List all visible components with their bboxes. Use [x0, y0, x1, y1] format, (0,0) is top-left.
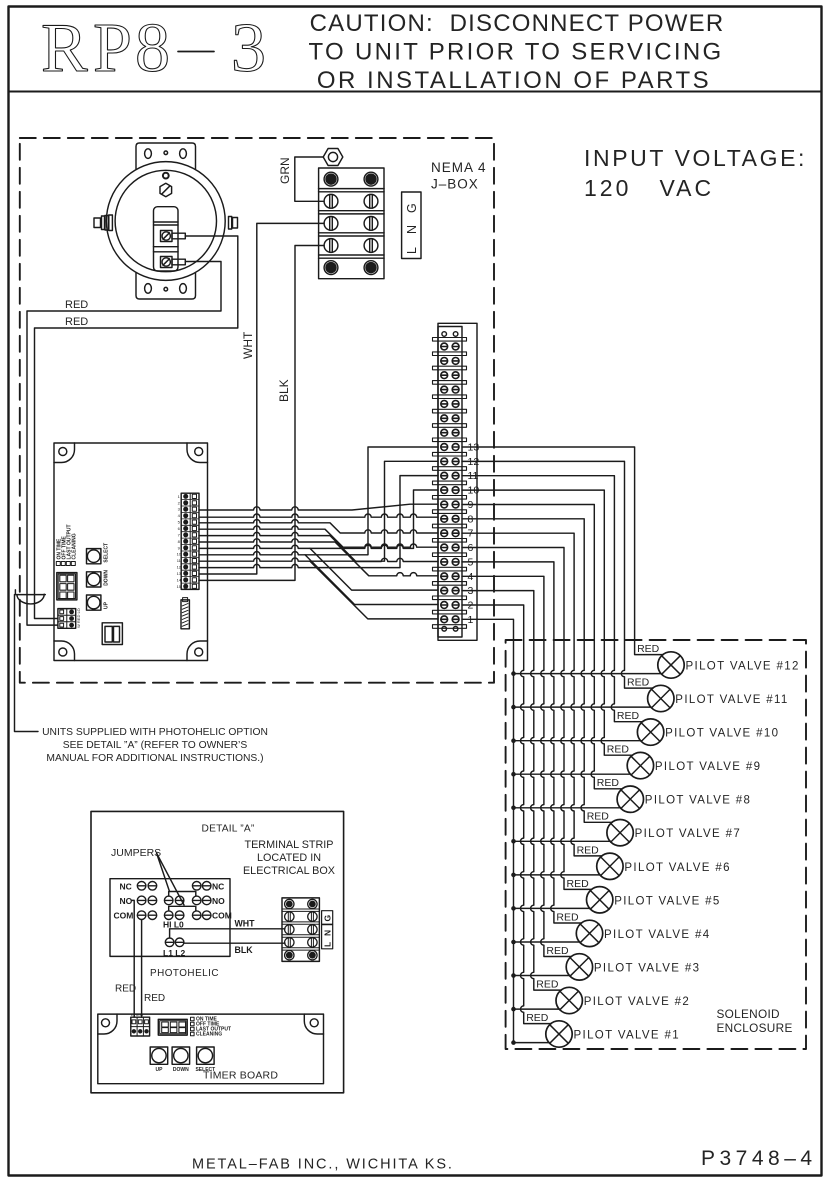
- pilot valve #6 (solenoid): [597, 853, 731, 879]
- wire board pin3 to TB1-7: [199, 520, 438, 533]
- wire COM to timer (RED): [141, 920, 143, 1017]
- svg-text:NC: NC: [120, 881, 132, 891]
- input voltage label: [584, 145, 807, 201]
- pin numbers 13..1: [468, 442, 480, 626]
- junction: [511, 705, 516, 710]
- pilot valve #7 (solenoid): [607, 820, 741, 846]
- svg-text:RED: RED: [587, 811, 610, 823]
- timer board U1: [54, 443, 208, 661]
- svg-text:RED: RED: [637, 643, 660, 655]
- jumper NO row: [169, 892, 196, 897]
- wire TB1-9 to pilot valve #8: [462, 505, 623, 789]
- svg-text:N: N: [405, 225, 419, 234]
- pilot valve #11 (solenoid): [648, 685, 789, 711]
- svg-text:INPUT VOLTAGE:: INPUT VOLTAGE:: [584, 145, 807, 171]
- svg-text:G: G: [323, 915, 333, 922]
- svg-text:TERMINAL STRIP: TERMINAL STRIP: [245, 839, 334, 851]
- label L N G box: [402, 192, 421, 259]
- svg-text:RED: RED: [556, 911, 579, 923]
- detail A box: [91, 811, 344, 1092]
- svg-text:RED: RED: [526, 1012, 549, 1024]
- pilot valve #2 (solenoid): [556, 987, 690, 1013]
- junction: [511, 873, 516, 878]
- wire common bus to pilot valve #11: [514, 706, 652, 708]
- svg-text:PILOT VALVE #10: PILOT VALVE #10: [665, 728, 779, 740]
- jumper leader lines: [157, 853, 185, 905]
- wire TB1-13 to pilot valve #12: [462, 447, 663, 655]
- svg-text:WHT: WHT: [235, 919, 256, 929]
- leader to RED wires: [15, 590, 46, 732]
- svg-text:SELECT: SELECT: [104, 543, 110, 563]
- svg-text:PILOT VALVE #12: PILOT VALVE #12: [686, 661, 800, 673]
- wire WHT: J1 row3 to timer board pin 13: [199, 223, 324, 574]
- svg-text:PILOT VALVE #4: PILOT VALVE #4: [604, 929, 710, 941]
- svg-text:BLK: BLK: [277, 379, 291, 402]
- svg-text:RED: RED: [577, 844, 600, 856]
- label SOLENOID ENCLOSURE: [717, 1007, 793, 1035]
- wire TB1-3 to pilot valve #2: [462, 591, 561, 991]
- svg-text:CLEANING: CLEANING: [196, 1032, 222, 1038]
- junction box J1 (detail A): [282, 898, 319, 962]
- svg-text:BLK: BLK: [235, 945, 254, 955]
- svg-text:PILOT VALVE #8: PILOT VALVE #8: [645, 795, 751, 807]
- terminal strip TB1: [433, 323, 478, 640]
- wire board pin5 to TB1-5: [199, 532, 438, 561]
- wire to TB1-2: [305, 555, 438, 605]
- wire common bus to pilot valve #6: [514, 874, 601, 876]
- svg-text:RED: RED: [627, 677, 650, 689]
- caution note: [309, 10, 725, 94]
- junction: [511, 906, 516, 911]
- wire common bus to pilot valve #2: [514, 1008, 560, 1010]
- wire to TB1-3: [310, 548, 438, 590]
- wire TB1-6 to pilot valve #5: [462, 548, 592, 890]
- svg-text:RED: RED: [607, 744, 630, 756]
- pilot valve #12 (solenoid): [658, 652, 800, 678]
- junction: [511, 738, 516, 743]
- pilot valve #3 (solenoid): [566, 954, 700, 980]
- svg-text:PHOTOHELIC: PHOTOHELIC: [150, 968, 219, 979]
- svg-text:RED: RED: [536, 979, 559, 991]
- wire BLK: J1 row4 to timer board pin 14: [199, 246, 324, 581]
- svg-text:W RED LO: W RED LO: [76, 608, 81, 628]
- pilot valve #1 (solenoid): [546, 1021, 680, 1047]
- svg-text:GRN: GRN: [278, 157, 292, 184]
- label L N G boxes (detail A): [322, 911, 333, 949]
- wire common bus to pilot valve #7: [514, 840, 611, 842]
- svg-text:SEE DETAIL ”A” (REFER TO OWNER: SEE DETAIL ”A” (REFER TO OWNER’S: [63, 740, 248, 751]
- wire BLK: L2 to J-box: [185, 942, 286, 944]
- svg-text:PILOT VALVE #5: PILOT VALVE #5: [614, 895, 720, 907]
- wire TB1-8 to pilot valve #7: [462, 519, 612, 823]
- junction: [511, 973, 516, 978]
- pilot valve #8 (solenoid): [617, 786, 751, 812]
- svg-text:COM: COM: [212, 911, 232, 921]
- wire GRN: ground lug to J1 row2: [295, 157, 324, 201]
- wire common bus to pilot valve #9: [514, 773, 631, 775]
- svg-text:DOWN: DOWN: [104, 570, 110, 586]
- svg-text:10: 10: [177, 552, 182, 557]
- svg-text:PILOT VALVE #9: PILOT VALVE #9: [655, 761, 761, 773]
- control enclosure (dashed): [20, 138, 494, 683]
- svg-text:RED: RED: [144, 993, 165, 1004]
- svg-text:RED: RED: [617, 710, 640, 722]
- svg-text:RED: RED: [567, 878, 590, 890]
- svg-text:PILOT VALVE #2: PILOT VALVE #2: [584, 996, 690, 1008]
- svg-text:RED: RED: [115, 984, 136, 995]
- wire common bus to pilot valve #1: [514, 1042, 550, 1044]
- junction: [511, 772, 516, 777]
- svg-text:PILOT VALVE #11: PILOT VALVE #11: [675, 694, 788, 706]
- svg-text:ELECTRICAL BOX: ELECTRICAL BOX: [243, 865, 335, 877]
- svg-text:14: 14: [177, 577, 182, 582]
- pilot valve #5 (solenoid): [587, 887, 721, 913]
- svg-text:N: N: [323, 930, 333, 936]
- svg-text:LOCATED IN: LOCATED IN: [257, 852, 321, 864]
- wire TB1-12 to pilot valve #11: [462, 461, 653, 688]
- svg-text:CLEANING: CLEANING: [72, 533, 78, 559]
- svg-text:RED: RED: [65, 316, 88, 328]
- photohelic option note: [42, 727, 268, 764]
- svg-text:DETAIL ”A”: DETAIL ”A”: [202, 824, 255, 835]
- svg-text:L: L: [323, 942, 333, 947]
- junction box J1 (NEMA 4): [319, 168, 384, 279]
- svg-text:WHT: WHT: [241, 331, 255, 359]
- wire TB1-10 to pilot valve #9: [462, 490, 633, 755]
- wire common bus to pilot valve #4: [514, 941, 580, 943]
- pilot valve #4 (solenoid): [576, 920, 710, 946]
- junction: [511, 839, 516, 844]
- timer board (detail A): [98, 1012, 324, 1084]
- svg-text:NC: NC: [212, 881, 224, 891]
- svg-text:COM: COM: [114, 911, 134, 921]
- wire common bus to pilot valve #8: [514, 807, 621, 809]
- svg-text:CAUTION: DISCONNECT POWER: CAUTION: DISCONNECT POWER: [310, 10, 725, 37]
- svg-text:PILOT VALVE #1: PILOT VALVE #1: [574, 1030, 680, 1042]
- svg-text:ENCLOSURE: ENCLOSURE: [717, 1021, 793, 1035]
- wire common bus to pilot valve #12: [514, 673, 662, 675]
- wire board pin10 to TB1-11 (riser): [199, 476, 438, 568]
- wire board pin2 to TB1-8: [199, 514, 438, 517]
- svg-text:TIMER BOARD: TIMER BOARD: [203, 1070, 278, 1082]
- svg-text:NO: NO: [120, 896, 133, 906]
- ground lug (hex nut): [323, 149, 343, 166]
- svg-text:JUMPERS: JUMPERS: [111, 847, 161, 859]
- svg-text:G: G: [405, 203, 419, 213]
- wire common bus from TB1-1: [462, 619, 514, 1042]
- wire TB1-4 to pilot valve #3: [462, 576, 572, 956]
- svg-text:NO: NO: [212, 896, 225, 906]
- junction: [511, 671, 516, 676]
- wire board pin1 to TB1-9: [199, 504, 438, 510]
- svg-text:TO UNIT PRIOR TO SERVICING: TO UNIT PRIOR TO SERVICING: [309, 39, 724, 66]
- photohelic pressure switch terminals: [110, 879, 232, 958]
- svg-text:15: 15: [177, 584, 182, 589]
- svg-text:SOLENOID: SOLENOID: [717, 1007, 780, 1021]
- svg-text:RED: RED: [546, 945, 569, 957]
- label TERMINAL STRIP LOCATED IN ELECTRICAL BOX: [243, 839, 335, 877]
- wire TB1-11 to pilot valve #10: [462, 476, 643, 722]
- svg-text:J–BOX: J–BOX: [431, 177, 479, 192]
- wire board pin7 to TB1-10 (riser): [199, 490, 438, 548]
- jumper COM row: [169, 906, 196, 911]
- wire common bus to pilot valve #10: [514, 740, 641, 742]
- svg-text:MANUAL FOR ADDITIONAL INSTRUCT: MANUAL FOR ADDITIONAL INSTRUCTIONS.): [46, 753, 263, 764]
- svg-text:PILOT VALVE #7: PILOT VALVE #7: [635, 828, 741, 840]
- svg-text:PILOT VALVE #3: PILOT VALVE #3: [594, 962, 700, 974]
- junction: [511, 1040, 516, 1045]
- svg-text:METAL–FAB INC., WICHITA KS.: METAL–FAB INC., WICHITA KS.: [192, 1157, 454, 1173]
- svg-text:RP83: RP83: [41, 10, 266, 87]
- svg-text:RED: RED: [65, 299, 88, 311]
- pilot valve #9 (solenoid): [627, 752, 761, 778]
- pressure switch PS1: [94, 143, 238, 299]
- svg-text:RED: RED: [597, 777, 620, 789]
- svg-text:UP: UP: [155, 1067, 163, 1073]
- svg-text:OR INSTALLATION OF PARTS: OR INSTALLATION OF PARTS: [317, 67, 711, 94]
- wire WHT: L1 to J-box: [170, 929, 285, 938]
- svg-text:L1 L2: L1 L2: [163, 948, 185, 958]
- wire common bus to pilot valve #3: [514, 975, 570, 977]
- svg-text:L: L: [405, 247, 419, 254]
- wire NO to timer (RED): [132, 900, 135, 1017]
- wire PS1 lower terminal to timer board (RED): [27, 262, 221, 626]
- svg-text:PILOT VALVE #6: PILOT VALVE #6: [624, 862, 730, 874]
- svg-text:13: 13: [177, 571, 182, 576]
- wire board pin8 to TB1-13 (riser): [199, 447, 438, 555]
- junction: [511, 940, 516, 945]
- svg-text:12: 12: [177, 565, 182, 570]
- svg-text:DOWN: DOWN: [173, 1067, 189, 1073]
- wire TB1-2 to pilot valve #1: [462, 605, 551, 1024]
- title block divider: [9, 91, 822, 93]
- junction: [511, 806, 516, 811]
- solenoid enclosure (dashed): [506, 640, 806, 1049]
- svg-text:120 VAC: 120 VAC: [584, 175, 714, 201]
- wire board pin4 to TB1-6: [199, 526, 438, 547]
- wire PS1 upper terminal to timer board (RED): [35, 236, 238, 619]
- svg-text:UNITS SUPPLIED WITH PHOTOHELIC: UNITS SUPPLIED WITH PHOTOHELIC OPTION: [42, 727, 268, 738]
- svg-text:HI L0: HI L0: [163, 919, 184, 929]
- wire to TB1-1: [310, 561, 438, 619]
- wire TB1-7 to pilot valve #6: [462, 533, 602, 856]
- svg-text:P3748–4: P3748–4: [701, 1147, 817, 1170]
- pilot valve #10 (solenoid): [637, 719, 779, 745]
- svg-text:UP: UP: [104, 601, 110, 609]
- svg-text:NEMA 4: NEMA 4: [431, 160, 487, 175]
- wire board pin9 to TB1-12 (riser): [199, 461, 438, 561]
- svg-text:L REM: L REM: [131, 1012, 143, 1017]
- wire common bus to pilot valve #5: [514, 907, 591, 909]
- junction: [511, 1007, 516, 1012]
- label NEMA 4 J-BOX: [431, 160, 487, 192]
- wire board pin6 to TB1-4: [199, 539, 438, 576]
- wire TB1-5 to pilot valve #4: [462, 562, 582, 923]
